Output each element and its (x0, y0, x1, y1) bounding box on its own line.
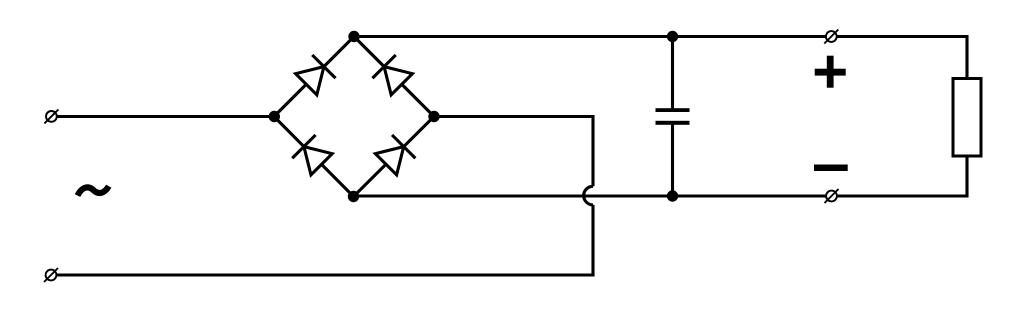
junction dot: bridge bottom node (348, 191, 359, 202)
terminal: DC output negative (bottom-right) (825, 189, 839, 203)
terminal: DC output positive (top-right) (824, 30, 838, 44)
label: - (negative output) (814, 165, 848, 172)
resistor R1 (load) (953, 79, 981, 157)
capacitor C1 bottom lead (671, 125, 674, 197)
wire: AC input top from terminal to bridge left node (56, 115, 274, 118)
wire: bridge diagonal left node to bottom node (274, 117, 354, 197)
wire: bottom DC rail from bridge bottom node to right edge corner (354, 156, 968, 196)
diode D3 (bridge bottom-left, anode bottom node, cathode left node) (292, 135, 333, 176)
wire: vertical return lower part to bottom AC wire (56, 205, 593, 275)
terminal: AC input top-left (44, 109, 58, 123)
junction dot: capacitor bottom node (667, 190, 678, 201)
capacitor C1 top lead (671, 37, 674, 111)
label: + (positive output) (815, 56, 846, 88)
label: ~ (AC source) (78, 186, 109, 195)
junction dot: bridge top node (348, 31, 359, 42)
capacitor C1 plates (656, 108, 690, 125)
terminal: AC input bottom-left (44, 268, 58, 282)
junction dot: bridge right node (428, 111, 439, 122)
wire: bridge diagonal top node to right node (354, 37, 434, 117)
junction dot: capacitor top node (667, 31, 678, 42)
junction dot: bridge left node (269, 111, 280, 122)
wire: bridge diagonal bottom node to right node (354, 117, 435, 197)
wire: bridge right node to vertical return, upper part (434, 117, 593, 187)
wire: top rail from bridge top node to right edge corner (354, 37, 967, 79)
diode D4 (bridge bottom-right, anode bottom node, cathode right node) (374, 135, 415, 176)
wire: bridge diagonal left node to top node (274, 37, 354, 117)
wire: crossover hop over bottom rail (584, 186, 593, 205)
diode D1 (bridge top-left, anode left node, cathode top node) (295, 55, 336, 96)
diode D2 (bridge top-right, anode right node, cathode top node) (372, 55, 413, 96)
